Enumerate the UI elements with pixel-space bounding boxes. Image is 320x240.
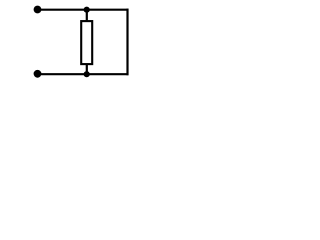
- terminal node (bottom-left): [34, 70, 42, 78]
- wire: top horizontal from left terminal to top-right corner: [38, 9, 129, 11]
- junction node (top of resistor): [84, 7, 90, 13]
- resistor body (rectangular box): [81, 21, 92, 64]
- terminal node (top-left): [34, 6, 42, 14]
- wire: resistor bottom lead: [86, 63, 88, 74]
- wire: bottom horizontal from left terminal to bottom-right corner: [38, 73, 129, 75]
- wire: resistor top lead: [86, 10, 88, 21]
- junction node (bottom of resistor): [84, 71, 90, 77]
- wire: right vertical side of loop: [126, 9, 128, 76]
